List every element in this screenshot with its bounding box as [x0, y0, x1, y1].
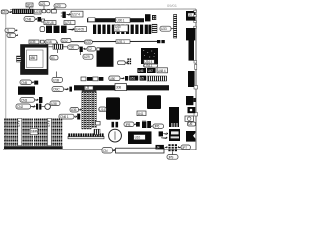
- box U17: [71, 11, 83, 17]
- callout row y40: box U35: [29, 40, 39, 44]
- pill U1B1 below socket: [52, 72, 63, 83]
- svg-text:U34-1: U34-1: [144, 64, 152, 68]
- pill JP8 + comp: [124, 122, 140, 127]
- pill U12: [61, 38, 71, 42]
- textured box right of DIP row: [152, 24, 157, 32]
- svg-text:U3: U3: [85, 86, 89, 90]
- svg-text:JP7: JP7: [182, 146, 187, 150]
- svg-text:U31 1: U31 1: [117, 40, 125, 44]
- pill C2 with left arrow: [83, 47, 95, 52]
- svg-text:U5: U5: [140, 77, 144, 81]
- pill below jumper block: [167, 151, 178, 159]
- svg-text:OSC: OSC: [53, 88, 60, 92]
- svg-text:4 x 9: 4 x 9: [47, 121, 51, 128]
- DIP switch bar SW1: [13, 9, 34, 13]
- main DIP row: [93, 25, 151, 34]
- small box right: [152, 15, 156, 20]
- svg-text:C30: C30: [69, 46, 75, 50]
- battery B1: [109, 129, 122, 142]
- callout left of F: pill: [149, 124, 163, 129]
- label box U9: [44, 21, 56, 25]
- border tick mid2: [194, 113, 198, 117]
- connector with white dot: [188, 107, 196, 113]
- pill U36 pointing to columns: [70, 107, 81, 112]
- SIMM banks: [4, 118, 63, 149]
- tiny box: [96, 121, 101, 125]
- ISA slot S2 right edge: [188, 71, 195, 87]
- svg-text:J4: J4: [156, 145, 159, 149]
- svg-text:U6: U6: [188, 122, 192, 126]
- tiny box below: [42, 19, 45, 22]
- svg-text:U12: U12: [62, 39, 68, 43]
- ISA slot S1 right edge: [189, 40, 195, 61]
- svg-text:U30 1: U30 1: [117, 19, 125, 23]
- jumper JP2 hatched with wires: [49, 42, 68, 53]
- svg-text:U7 8: U7 8: [65, 21, 72, 25]
- border tick mid1: [194, 86, 198, 90]
- svg-text:U51: U51: [130, 77, 136, 81]
- CPU socket outer: [21, 45, 48, 74]
- svg-text:U14: U14: [99, 108, 105, 112]
- slot columns (vertical striped): [82, 90, 97, 129]
- DIN connector black: [186, 131, 195, 142]
- cache row 2: [109, 76, 167, 81]
- board outline top border: [10, 8, 196, 10]
- svg-text:CN2: CN2: [17, 105, 23, 109]
- pill U38: [50, 101, 60, 106]
- svg-text:U23: U23: [35, 10, 41, 14]
- svg-text:U20: U20: [55, 4, 61, 8]
- label box U4: [75, 27, 86, 32]
- label box on bar right: [156, 145, 164, 150]
- crystal X2: [80, 47, 83, 52]
- svg-text:JP6: JP6: [154, 125, 159, 129]
- arrow to label: [68, 28, 75, 30]
- box U23: [34, 9, 41, 14]
- pill U14 pointing to chip E: [99, 107, 106, 112]
- pill row CN3: [20, 97, 42, 103]
- svg-text:CN6 1: CN6 1: [60, 115, 69, 119]
- tiny pill pair: [42, 10, 50, 13]
- caps C10 C11: [112, 122, 119, 128]
- svg-text:U1B: U1B: [53, 78, 60, 82]
- pill top right above DIN: [188, 122, 196, 126]
- pill U2 below: [81, 52, 93, 59]
- cache row 1: [137, 68, 167, 73]
- label box right of chip E: [137, 111, 146, 116]
- component K1: [38, 17, 42, 22]
- svg-text:19: 19: [188, 13, 192, 17]
- svg-text:SIMM: SIMM: [31, 129, 39, 133]
- callout J1 left edge: [5, 28, 17, 32]
- svg-text:U33: U33: [161, 27, 167, 31]
- arrow to box U17: [67, 14, 71, 16]
- svg-text:U41: U41: [138, 112, 144, 116]
- svg-text:U38: U38: [51, 102, 57, 106]
- small box + arrows to H: [159, 131, 168, 138]
- crystal Y1: [61, 12, 66, 18]
- pill left of jumper block: [165, 146, 168, 148]
- pill right of socket: [50, 56, 58, 61]
- svg-text:U50: U50: [110, 77, 116, 81]
- SIMM bottom dark row: [4, 146, 63, 149]
- svg-text:U13: U13: [85, 40, 91, 44]
- callout U20 with diagonal stem: [53, 4, 67, 10]
- bottom long bar CN10: [102, 148, 164, 153]
- svg-text:JP9: JP9: [168, 155, 173, 159]
- small mark: [41, 40, 45, 43]
- callout CN8 row2: [24, 17, 37, 22]
- small blocks at line right end: [157, 40, 165, 43]
- chip A U32: [97, 48, 114, 67]
- long bar L1: [87, 18, 144, 23]
- black blob left Q1: [18, 86, 35, 94]
- OSC pill: [52, 87, 72, 92]
- svg-text:U29: U29: [84, 55, 90, 59]
- chip B U34: [141, 48, 158, 64]
- svg-text:CN3: CN3: [21, 98, 27, 102]
- pill below chip B: [144, 64, 158, 68]
- cap C12: [147, 121, 151, 128]
- black box H with slots: [169, 129, 180, 141]
- svg-text:C2: C2: [88, 47, 92, 51]
- chip U42 right: [147, 95, 161, 109]
- svg-text:U21: U21: [40, 2, 46, 6]
- svg-text:4 x 9: 4 x 9: [17, 121, 21, 128]
- black rect G right: [169, 107, 179, 127]
- svg-text:CN8: CN8: [25, 17, 31, 21]
- keyboard blob K2: [186, 96, 196, 105]
- svg-text:U10: U10: [135, 136, 141, 140]
- svg-text:U35: U35: [30, 40, 36, 44]
- svg-text:09/01: 09/01: [167, 3, 178, 8]
- comp with pins: [142, 120, 146, 128]
- svg-text:J1: J1: [6, 29, 9, 33]
- board outline bottom border: [3, 149, 196, 151]
- svg-text:U46: U46: [138, 69, 144, 73]
- callout CN1 top-left: [1, 10, 12, 14]
- box J10: [52, 10, 57, 13]
- jumper pin block: [127, 58, 131, 64]
- svg-text:U48 4: U48 4: [158, 69, 166, 73]
- chip D1 top right: [186, 11, 195, 21]
- chip E U39: [106, 97, 120, 122]
- pill CN5 left: [20, 80, 38, 85]
- svg-text:J2: J2: [8, 34, 11, 38]
- SIMM label column bank A: [18, 118, 22, 145]
- hatched label on L2: [115, 84, 127, 91]
- label box U7: [64, 21, 75, 25]
- chip cluster U5 U6 U7: [46, 26, 67, 33]
- svg-text:JP3: JP3: [27, 3, 32, 7]
- pill pointing right: [118, 61, 128, 65]
- callout J2 left edge: [7, 33, 18, 37]
- pill CN6: [59, 114, 80, 120]
- SIMM label column bank B: [48, 118, 52, 145]
- callout U21 with stem: [39, 2, 50, 10]
- svg-text:U4 05: U4 05: [76, 28, 84, 32]
- border tick marks: [194, 10, 197, 28]
- jumper block 3x3: [168, 144, 177, 151]
- svg-text:U16: U16: [46, 40, 52, 44]
- svg-text:JP8: JP8: [125, 123, 130, 127]
- pill row CN2 with cap and circle: [16, 104, 50, 110]
- chip D2 right: [186, 28, 195, 40]
- hatched box left of socket: [17, 56, 22, 62]
- svg-text:U17 4: U17 4: [72, 13, 80, 17]
- long bar L2: [74, 85, 169, 90]
- board outline left border: [5, 14, 7, 150]
- board outline right border: [195, 9, 197, 150]
- svg-text:308: 308: [116, 86, 121, 90]
- pill at left of chip cluster: [40, 27, 45, 32]
- callout JP3 with stem: [26, 3, 33, 9]
- hatched box left of battery: [94, 129, 100, 134]
- pill U13 right of line: [84, 40, 92, 44]
- center line y41.4: [71, 40, 157, 42]
- black box F with label: [128, 131, 152, 144]
- svg-text:U1: U1: [51, 56, 55, 60]
- svg-text:U36: U36: [71, 108, 77, 112]
- pill PAL: [45, 40, 57, 44]
- bracket tab: [194, 61, 197, 70]
- toothed connector J2: [68, 133, 104, 138]
- svg-text:U47: U47: [148, 69, 154, 73]
- cache row 2 left quad: [81, 77, 103, 81]
- pill C30: [68, 45, 80, 50]
- DIN socket box: [185, 116, 193, 121]
- pill right of jumper block: [178, 145, 191, 150]
- black box right of L1: [145, 14, 151, 21]
- label box U31 on line: [116, 40, 130, 44]
- svg-text:486: 486: [30, 56, 35, 60]
- SIMM center label box: [30, 128, 38, 134]
- callout U33: [160, 26, 174, 31]
- SIP resistor column RN1: [174, 15, 177, 39]
- svg-text:CN5: CN5: [21, 81, 27, 85]
- svg-text:U9 U8: U9 U8: [45, 21, 54, 25]
